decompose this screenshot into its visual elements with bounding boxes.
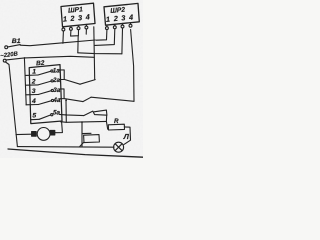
svg-text:Л: Л [123, 132, 130, 141]
wire riser from ShR1 corner down to contact K1 [93, 27, 96, 80]
switch B1 top terminal [5, 46, 8, 49]
wire R right lead down to lamp [124, 127, 131, 144]
wire W3 to contact K2 [64, 99, 83, 102]
switch block V2 box [29, 65, 62, 124]
wire 5a to contact K3 [60, 114, 84, 115]
switch V2 contact 4 [26, 99, 54, 104]
wire drop to fuse area [81, 122, 83, 147]
svg-text:1а: 1а [53, 67, 61, 74]
svg-text:3: 3 [32, 88, 36, 95]
svg-text:1: 1 [63, 14, 68, 23]
wire ShR1 pin2-pin3 bracket [71, 30, 79, 36]
frame border bottom [8, 149, 143, 157]
arrow shape connector P [93, 110, 107, 115]
svg-text:4а: 4а [52, 97, 61, 104]
resistor R body [108, 124, 124, 130]
wire bracket 2a-3a [59, 70, 64, 80]
wire R left lead [106, 121, 108, 129]
wire fuse to bus [80, 142, 84, 146]
switch V2 contact 1 [25, 70, 53, 76]
svg-text:3: 3 [121, 13, 126, 22]
svg-text:1: 1 [106, 15, 111, 24]
motor right terminal [50, 130, 55, 135]
fuse box Pr [84, 135, 100, 143]
wire junction from 5a wire down [65, 100, 67, 122]
svg-text:4: 4 [84, 12, 90, 21]
wire W2 to contact K1 [64, 79, 80, 84]
wire ShR2 pin3 drop to H2 [121, 28, 124, 54]
wire H2: ShR1 pins 2,3 to ShR2 pin3 [78, 53, 122, 54]
switch V2 contact 5 [31, 114, 53, 120]
svg-text:R: R [114, 118, 119, 125]
connector ШР2 pin stems and circles [105, 23, 131, 30]
svg-text:2а: 2а [52, 77, 61, 84]
svg-text:В1: В1 [12, 38, 21, 45]
connector ШР1 pin stems and circles [62, 24, 88, 31]
motor left terminal [32, 132, 37, 137]
wire K2 to ShR2 pin4 riser [91, 97, 134, 101]
wire motor left lead [16, 133, 32, 135]
svg-text:3: 3 [78, 13, 83, 22]
svg-text:3а: 3а [53, 87, 61, 94]
wire rail to V2 left rail [24, 58, 26, 105]
connector ШР2 box [104, 3, 139, 25]
svg-text:5: 5 [32, 113, 36, 120]
label ШР2 pins 1 2 3 4 [106, 12, 134, 23]
wire H3: B1 bottom feed [6, 56, 94, 60]
wire ShR1 pin4 stem [85, 29, 87, 34]
switch B1 lever [8, 45, 20, 47]
wire box bottom to resistor R [61, 120, 107, 123]
wire ShR1 pin1 down to H1 [62, 31, 65, 43]
wire ShR2 pin2 elbow to backbone [95, 29, 115, 46]
wire bracket drop to H2 [77, 36, 79, 53]
contact K1 lever [80, 80, 95, 85]
switch B1 bottom terminal [3, 59, 6, 62]
svg-text:В2: В2 [36, 60, 45, 68]
svg-text:5а: 5а [53, 110, 61, 117]
svg-text:4: 4 [128, 12, 134, 21]
motor M circle [37, 127, 50, 140]
switch V2 contact 2 [26, 80, 54, 85]
wire H1: B1 top to ShR1 pin1 and ShR2 pin1 [20, 40, 95, 46]
svg-text:1: 1 [32, 69, 36, 76]
contact K3 lever [84, 111, 93, 116]
connector ШР1 box [61, 3, 95, 27]
wire ShR2 pin1 elbow to H1 [96, 30, 107, 41]
switch V2 contact 3 [26, 89, 54, 94]
wire arrow to resistor lead [105, 115, 107, 121]
wire bottom bus [17, 146, 114, 149]
svg-text:2: 2 [69, 14, 75, 23]
label ШР1 pins 1 2 3 4 [63, 12, 91, 23]
wire B1 bottom to left return [6, 62, 18, 147]
lamp L circle [114, 142, 124, 152]
contact K2 lever [83, 97, 91, 101]
svg-text:4: 4 [31, 98, 36, 105]
wire bracket 4a step [60, 89, 65, 99]
svg-text:2: 2 [112, 14, 118, 23]
fuse box Pr stub [82, 132, 91, 134]
svg-text:2: 2 [31, 78, 36, 85]
lamp L cross [115, 144, 122, 151]
wire ShR2 pin4 riser [131, 30, 134, 102]
junction dots [24, 57, 83, 123]
wire motor right lead riser [55, 122, 63, 133]
